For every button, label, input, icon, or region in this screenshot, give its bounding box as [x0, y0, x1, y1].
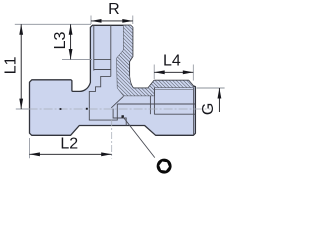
svg-text:L1: L1: [2, 56, 19, 74]
internal step rectangle near leader anchor: [113, 109, 126, 126]
hatch: sectioned walls (branch thread, body top wall, right port thread band): [117, 25, 194, 96]
dimension G: [197, 88, 225, 115]
svg-text:L3: L3: [52, 32, 69, 50]
svg-text:L2: L2: [60, 135, 78, 152]
svg-text:R: R: [108, 1, 120, 18]
leader line to hex symbol: [123, 117, 155, 158]
internal orifice chamfer diagonal: [111, 96, 123, 108]
right port bore lines: [117, 88, 195, 135]
internal bore lines of branch: [94, 25, 111, 76]
top extension line: [15, 23, 91, 25]
dimension R: [91, 1, 133, 24]
hex wrench symbol: [157, 159, 172, 174]
thread minor line of right port: [155, 89, 194, 91]
dimension L4: [154, 53, 193, 81]
main horizontal centerline: [16, 108, 29, 110]
dimension L3: [52, 24, 92, 59]
branch vertical centerline: [111, 119, 113, 159]
internal staircase bore of body: [89, 76, 117, 120]
dimension L1: [2, 24, 23, 109]
dimension L2: [29, 135, 111, 158]
svg-text:L4: L4: [163, 53, 181, 70]
leader anchor dot: [122, 115, 124, 117]
centerline dots: [60, 108, 62, 110]
svg-text:G: G: [200, 103, 217, 115]
body outline (tee fitting silhouette): [30, 25, 196, 135]
